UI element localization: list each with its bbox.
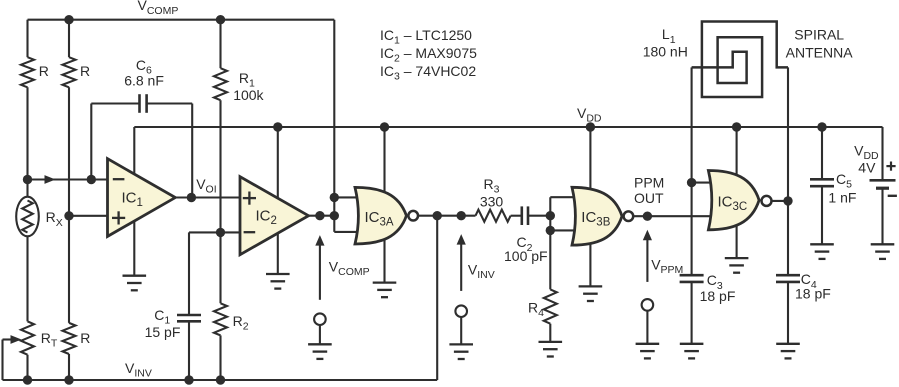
- svg-text:15 pF: 15 pF: [145, 324, 181, 340]
- svg-text:OUT: OUT: [634, 190, 664, 206]
- svg-text:SPIRAL: SPIRAL: [794, 27, 844, 43]
- svg-text:18 pF: 18 pF: [700, 288, 736, 304]
- svg-text:PPM: PPM: [634, 175, 664, 191]
- svg-text:100 pF: 100 pF: [504, 248, 548, 264]
- svg-text:100k: 100k: [233, 87, 264, 103]
- svg-text:330: 330: [480, 193, 504, 209]
- svg-text:R: R: [80, 330, 90, 346]
- svg-text:6.8 nF: 6.8 nF: [124, 72, 164, 88]
- svg-text:ANTENNA: ANTENNA: [786, 44, 854, 60]
- svg-text:18 pF: 18 pF: [795, 286, 831, 302]
- svg-text:4V: 4V: [858, 160, 876, 176]
- svg-text:R: R: [80, 63, 90, 79]
- svg-text:180 nH: 180 nH: [643, 43, 688, 59]
- svg-text:R: R: [39, 63, 49, 79]
- svg-text:1 nF: 1 nF: [828, 190, 856, 206]
